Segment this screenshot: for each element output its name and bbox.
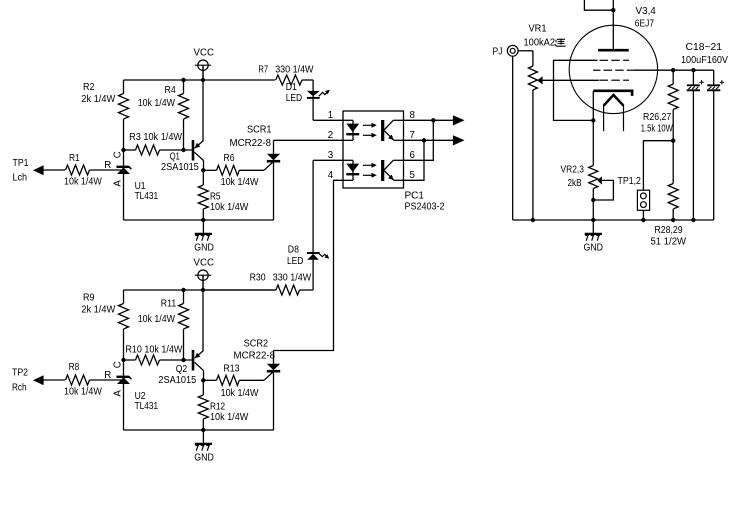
svg-text:C18~21: C18~21 [686, 42, 723, 53]
svg-text:10k 1/4W: 10k 1/4W [64, 176, 103, 187]
capacitor C20,21 electrolytic [713, 70, 715, 85]
LED D1 cathode bar [307, 97, 320, 99]
svg-text:TP2: TP2 [12, 368, 28, 379]
shunt regulator U1 anode lead [123, 174, 125, 220]
svg-text:VR2,3: VR2,3 [561, 165, 584, 176]
svg-text:VCC: VCC [194, 48, 215, 59]
svg-text:A: A [113, 390, 124, 397]
resistor R1 10k 1/4W [66, 165, 90, 175]
thyristor SCR2 cathode lead [273, 371, 275, 430]
LED D8 light arrow [319, 254, 328, 258]
svg-text:R: R [104, 160, 111, 171]
junction dot VR2,3 bottom [591, 198, 595, 202]
resistor R3 10k 1/4W [124, 149, 136, 151]
resistor R5 10k 1/4W [202, 170, 204, 185]
PC1 internal LED 1 bar [346, 133, 359, 135]
junction dot pin7-pin5 [422, 138, 426, 142]
thyristor SCR1 anode lead [273, 140, 275, 154]
svg-text:7: 7 [410, 130, 415, 141]
svg-text:MCR22-8: MCR22-8 [234, 350, 276, 361]
VCC symbol [198, 60, 208, 70]
PC1 internal LED 2 bar [346, 173, 359, 175]
VCC symbol [198, 270, 208, 280]
svg-text:R1: R1 [69, 153, 80, 164]
svg-text:LED: LED [287, 256, 303, 267]
thyristor SCR1 cathode bar [267, 160, 280, 163]
test point arrow TP1 [33, 165, 44, 175]
svg-text:5: 5 [410, 170, 415, 181]
svg-text:R11: R11 [161, 298, 176, 309]
resistor R10 10k 1/4W [124, 359, 136, 361]
svg-text:1: 1 [328, 110, 333, 121]
PC1 internal LED 1 triangle [346, 124, 359, 133]
junction dot rail-VR1 [531, 218, 535, 222]
PC1 light arrow 1b [363, 134, 372, 136]
junction dot collector node [201, 378, 205, 382]
svg-text:R5: R5 [210, 191, 221, 202]
junction dot pin8-pin6 [431, 118, 435, 122]
node TP out wire TP2 [43, 379, 65, 381]
transistor Q2 emitter [195, 351, 204, 359]
svg-text:2: 2 [328, 130, 333, 141]
shunt regulator U2 anode lead [123, 384, 125, 430]
junction dot rail-R11 [181, 288, 185, 292]
svg-text:TP1,2: TP1,2 [618, 176, 641, 187]
svg-text:10k 1/4W: 10k 1/4W [210, 202, 249, 213]
resistor R6 10k 1/4W [203, 169, 216, 171]
svg-text:10k 1/4W: 10k 1/4W [221, 177, 260, 188]
junction dot rail-VCC [201, 288, 205, 292]
thyristor SCR2 anode lead [273, 350, 275, 364]
wire SCR1 anode to PC1 pin2 [274, 139, 344, 141]
transistor Q1 base bar [192, 140, 195, 161]
wire VR1 wiper to grid g1 [543, 79, 599, 81]
svg-text:GND: GND [194, 453, 214, 464]
PC1 internal LED 1 wires [343, 119, 353, 121]
svg-text:V3,4: V3,4 [636, 6, 657, 17]
node TP out wire TP1 [43, 169, 65, 171]
junction dot rail-R28 [671, 218, 675, 222]
wire plate node left branch [584, 0, 613, 10]
ground rail wire [124, 429, 274, 431]
svg-text:VCC: VCC [194, 258, 215, 269]
svg-text:TL431: TL431 [135, 401, 159, 412]
wire TP1,2 down [642, 210, 644, 220]
svg-text:R4: R4 [165, 85, 177, 96]
wire g2 to decoupling [633, 69, 714, 71]
label C cathode [113, 361, 124, 368]
junction dot base node [181, 358, 185, 362]
PC1 light arrow 2b [363, 174, 372, 176]
capacitor C18,19 electrolytic [692, 70, 694, 85]
PC1 light arrow 2a [363, 164, 372, 166]
tube plate bar [598, 49, 629, 52]
svg-text:LED: LED [286, 93, 302, 104]
svg-text:PJ: PJ [493, 46, 503, 57]
junction dot node C [121, 358, 125, 362]
ground rail right [513, 219, 714, 221]
transistor Q2 collector [195, 362, 204, 370]
svg-text:C: C [113, 151, 124, 158]
shunt regulator U1 cathode bar [117, 166, 130, 168]
svg-text:Q2: Q2 [176, 364, 187, 375]
transistor Q2 base bar [192, 350, 195, 371]
label kanji ren (ganged) [557, 38, 565, 40]
svg-text:C: C [113, 361, 124, 368]
resistor R11 10k 1/4W [183, 290, 185, 304]
svg-text:Q1: Q1 [170, 152, 180, 163]
svg-text:10k 1/4W: 10k 1/4W [210, 412, 249, 423]
svg-text:PC1: PC1 [405, 191, 425, 202]
thyristor SCR2 gate wire [264, 372, 274, 381]
wire PJ to ground rail [512, 56, 514, 220]
svg-text:R2: R2 [83, 82, 95, 93]
svg-text:D8: D8 [288, 244, 299, 255]
test pins TP1,2 body [637, 190, 649, 210]
resistor R9 2k 1/4W [123, 290, 125, 304]
junction dot plate node [611, 8, 615, 12]
junction dot rail-cap1 [691, 218, 695, 222]
svg-text:6EJ7: 6EJ7 [635, 19, 654, 30]
svg-text:2k 1/4W: 2k 1/4W [81, 94, 116, 105]
svg-text:10k 1/4W: 10k 1/4W [138, 314, 176, 325]
junction dot rail-VR23 [591, 218, 595, 222]
resistor R30 330 1/4W [203, 289, 276, 291]
wire D8 to PC1 pin3 [313, 159, 343, 161]
wire TP1,2 up [643, 141, 673, 191]
VCC rail wire [124, 289, 276, 291]
svg-text:R10 10k 1/4W: R10 10k 1/4W [125, 345, 183, 356]
junction dot collector node [201, 168, 205, 172]
junction dot cathode node [591, 118, 595, 122]
output arrow pin7 [453, 135, 465, 145]
svg-text:D1: D1 [286, 82, 297, 93]
resistor R28,29 51 1/2W [672, 141, 674, 184]
shunt regulator U1 TL431 cathode lead [123, 150, 125, 166]
junction dot node C [121, 148, 125, 152]
wire pin7 output [404, 139, 454, 141]
tube cathode [593, 91, 632, 96]
tube plate lead [612, 0, 614, 50]
ground symbol [202, 430, 204, 443]
ground symbol [202, 220, 204, 233]
svg-text:R7: R7 [258, 65, 268, 76]
svg-text:2SA1015: 2SA1015 [161, 162, 199, 173]
wire PJ to VR1 top [518, 50, 533, 52]
svg-text:51 1/2W: 51 1/2W [651, 236, 687, 247]
junction dot TP node [671, 139, 675, 143]
shunt regulator U2 anode triangle [117, 377, 130, 384]
PC1 internal LED 2 wires [343, 159, 353, 161]
LED D1 triangle [307, 91, 320, 97]
resistor R13 10k 1/4W [203, 379, 216, 381]
PC1 phototransistor 2 base bar [381, 160, 384, 181]
wire pin5 to pin7 [404, 140, 425, 180]
resistor R2 2k 1/4W [123, 80, 125, 94]
svg-text:SCR1: SCR1 [247, 125, 272, 136]
svg-text:R28,29: R28,29 [655, 225, 683, 236]
resistor R26,27 1.5k 10W [672, 70, 674, 84]
wire PC1 pin4 to SCR2 anode [274, 180, 344, 350]
resistor R4 10k 1/4W [183, 80, 185, 94]
svg-text:A: A [113, 180, 124, 187]
junction dot ground rail [201, 218, 205, 222]
svg-text:330 1/4W: 330 1/4W [275, 65, 314, 76]
svg-text:Rch: Rch [12, 383, 27, 394]
svg-text:330 1/4W: 330 1/4W [273, 272, 312, 283]
transistor Q1 collector [195, 152, 204, 160]
svg-text:3: 3 [328, 150, 333, 161]
svg-text:10k 1/4W: 10k 1/4W [221, 388, 260, 399]
label A anode [113, 180, 124, 187]
potentiometer VR1 element [532, 51, 534, 66]
wire VR2,3 wiper loop [593, 180, 613, 200]
svg-text:2kB: 2kB [568, 178, 582, 189]
shunt regulator U2 cathode bar [117, 376, 130, 378]
svg-text:MCR22-8: MCR22-8 [230, 138, 272, 149]
svg-text:2k 1/4W: 2k 1/4W [81, 305, 116, 316]
thyristor SCR1 gate wire [264, 162, 274, 171]
phono jack PJ [507, 45, 518, 56]
tube V3,4 6EJ7 envelope [569, 25, 657, 113]
output arrow pin8 [453, 115, 465, 125]
svg-text:R6: R6 [224, 153, 235, 164]
resistor R7 330 1/4W [276, 75, 302, 85]
tube grid g2 dashes [593, 69, 601, 71]
svg-text:10k 1/4W: 10k 1/4W [64, 386, 103, 397]
shunt regulator U2 TL431 cathode lead [123, 360, 125, 376]
svg-text:2SA1015: 2SA1015 [158, 375, 196, 386]
svg-text:R26,27: R26,27 [643, 112, 671, 123]
junction dot ground rail [201, 428, 205, 432]
potentiometer VR1 wiper arrow [537, 76, 542, 84]
PC1 phototransistor 1 base bar [381, 120, 384, 141]
LED D8 lead [312, 160, 314, 290]
PC1 phototransistor 1 emitter [384, 131, 394, 141]
label C cathode [113, 151, 124, 158]
svg-text:R9: R9 [83, 293, 95, 304]
svg-text:R13: R13 [224, 364, 240, 375]
svg-text:4: 4 [328, 170, 334, 181]
PC1 phototransistor 2 emitter [384, 171, 394, 181]
tube heater [604, 95, 624, 106]
thyristor SCR1 triangle [267, 154, 280, 160]
PC1 light arrow 1a [363, 124, 372, 126]
svg-text:R8: R8 [69, 362, 80, 373]
svg-text:GND: GND [194, 243, 214, 254]
label A anode [113, 390, 124, 397]
svg-text:GND: GND [584, 243, 604, 254]
LED D8 cathode bar [307, 252, 320, 254]
svg-text:R: R [104, 370, 111, 381]
potentiometer VR2,3 wiper arrow [597, 176, 602, 184]
PC1 internal LED 2 triangle [346, 164, 359, 173]
wire pin8 output [404, 119, 454, 121]
svg-text:VR1: VR1 [529, 24, 547, 35]
shunt regulator U1 anode triangle [117, 167, 130, 174]
wire R1 to U1 R pin [90, 169, 122, 171]
resistor R8 10k 1/4W [66, 375, 90, 385]
transistor Q1 emitter [195, 141, 204, 149]
svg-text:6: 6 [410, 150, 415, 161]
svg-text:TP1: TP1 [13, 158, 29, 169]
svg-text:10k 1/4W: 10k 1/4W [138, 98, 176, 109]
LED D8 triangle [307, 254, 319, 260]
junction dot rail-VCC [201, 78, 205, 82]
svg-text:R3 10k 1/4W: R3 10k 1/4W [129, 132, 183, 143]
wire R8 to U2 R pin [90, 379, 122, 381]
junction dot cap1 top [691, 68, 695, 72]
wire VCC to Q1 emitter [202, 65, 204, 140]
ground symbol right [592, 220, 594, 233]
svg-text:R30: R30 [250, 272, 267, 283]
wire D1 to PC1 pin1 [313, 119, 343, 121]
PC1 phototransistor 1 collector [384, 120, 393, 130]
wire pin6 to pin8 [404, 120, 434, 160]
svg-text:Lch: Lch [13, 173, 28, 184]
thyristor SCR1 cathode lead [273, 161, 275, 220]
PC1 phototransistor 2 collector [384, 160, 393, 170]
VCC rail wire [124, 79, 276, 81]
thyristor SCR2 triangle [267, 364, 280, 370]
junction dot rail-R4 [181, 78, 185, 82]
ground rail wire [124, 219, 274, 221]
junction dot base node [181, 148, 185, 152]
svg-text:TL431: TL431 [135, 191, 159, 202]
test point arrow TP2 [33, 375, 44, 385]
junction dot rail-TP [641, 218, 645, 222]
wire VCC to Q2 emitter [202, 275, 204, 350]
LED D1 lead [312, 80, 314, 120]
svg-text:1.5k 10W: 1.5k 10W [641, 124, 674, 135]
svg-text:R12: R12 [210, 401, 225, 412]
wire g3 to cathode node [554, 60, 598, 120]
potentiometer VR2,3 element [589, 166, 598, 189]
LED D1 light arrow [319, 91, 328, 96]
svg-text:100kA2: 100kA2 [524, 38, 556, 49]
tube grid g1 dashes [600, 79, 609, 81]
svg-text:SCR2: SCR2 [244, 339, 269, 350]
thyristor SCR2 cathode bar [267, 370, 280, 373]
junction dot g2-R26 node [671, 68, 675, 72]
tube cathode lead [592, 91, 594, 166]
optocoupler PC1 PS2403-2 body [343, 111, 404, 188]
svg-text:8: 8 [410, 110, 415, 121]
svg-text:100uF160V: 100uF160V [681, 55, 729, 66]
svg-text:PS2403-2: PS2403-2 [405, 201, 445, 212]
resistor R12 10k 1/4W [202, 380, 204, 395]
tube grid g3 dashes [600, 59, 609, 61]
